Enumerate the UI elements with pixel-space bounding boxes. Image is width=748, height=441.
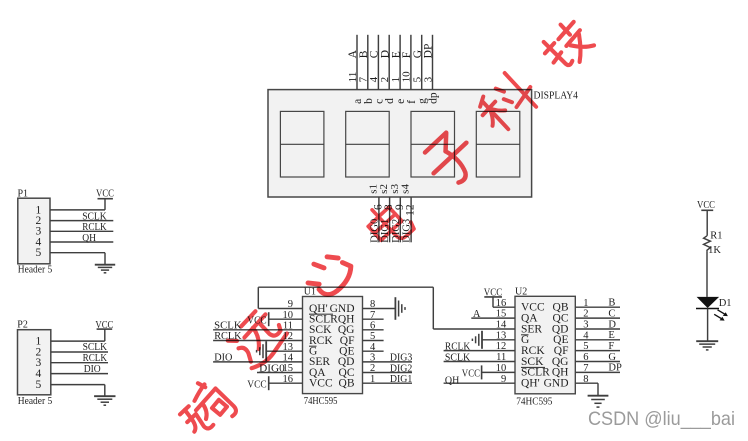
net label D (U2) bbox=[608, 319, 616, 330]
wire segment net G (display pin 5) bbox=[421, 35, 423, 90]
net label B (U2) bbox=[608, 298, 615, 309]
wire P1 pin5 to ground bbox=[50, 253, 105, 265]
power VCC (P1) bbox=[96, 188, 114, 199]
wire U1 pin12 RCLK bbox=[213, 340, 302, 342]
svg-text:VCC: VCC bbox=[697, 200, 715, 211]
pin number 5 (display top) bbox=[412, 76, 424, 82]
pin number 9 (display bottom) bbox=[394, 204, 406, 210]
svg-text:Header 5: Header 5 bbox=[18, 395, 53, 407]
wire segment net C (display pin 4) bbox=[377, 35, 379, 90]
svg-text:QB: QB bbox=[339, 378, 355, 390]
power VCC (R1 chain) bbox=[697, 200, 715, 211]
ground (P2) bbox=[94, 396, 115, 405]
svg-text:DIG2: DIG2 bbox=[390, 363, 412, 374]
connector P2 (Header 5) bbox=[17, 319, 52, 407]
wire U2 pin1 B bbox=[575, 306, 620, 308]
wire P2 pin4 DIO bbox=[51, 373, 108, 375]
net label SCLK (U2) bbox=[445, 352, 471, 363]
wire P1 pin3 RCLK bbox=[50, 230, 113, 232]
net label E (U2) bbox=[608, 330, 614, 341]
svg-text:RCLK: RCLK bbox=[83, 353, 108, 364]
wire U1 pin4 stub bbox=[363, 350, 384, 352]
svg-text:DIG1: DIG1 bbox=[390, 374, 412, 385]
svg-text:P2: P2 bbox=[17, 319, 28, 330]
op IC U2 74HC595 body bbox=[496, 286, 590, 407]
watermark char 心 bbox=[301, 247, 356, 302]
net label C bbox=[369, 50, 381, 58]
resistor R1 bbox=[704, 236, 711, 251]
wire P1 pin2 SCLK bbox=[50, 220, 113, 222]
watermark char 骑 bbox=[172, 376, 238, 441]
wire U1 pin8 GND bbox=[363, 308, 396, 310]
watermark char 电 bbox=[362, 196, 416, 250]
wire U1 pin7 stub bbox=[363, 318, 384, 320]
svg-text:RCLK: RCLK bbox=[82, 222, 107, 233]
pin name b (display) bbox=[363, 98, 375, 104]
svg-text:G: G bbox=[608, 352, 616, 363]
net label QH (P1) bbox=[82, 233, 96, 244]
svg-text:QH': QH' bbox=[521, 378, 540, 390]
wire segment net DP (display pin 3) bbox=[432, 35, 434, 90]
svg-text:A: A bbox=[473, 309, 481, 320]
svg-text:GND: GND bbox=[544, 378, 569, 390]
wire U2 pin14 bbox=[433, 328, 515, 330]
svg-text:VCC: VCC bbox=[247, 380, 267, 391]
wire U1 pin14 DIO bbox=[213, 361, 302, 363]
label D1 bbox=[719, 298, 732, 309]
pin number 10 (display top) bbox=[401, 71, 413, 83]
power VCC (P2) bbox=[95, 320, 113, 331]
svg-text:VCC: VCC bbox=[96, 188, 114, 199]
svg-text:1K: 1K bbox=[708, 245, 721, 256]
wire R1 to D1 bbox=[706, 251, 708, 297]
svg-text:RCLK: RCLK bbox=[445, 342, 471, 353]
power VCC (U2 pin16) bbox=[484, 287, 503, 298]
svg-text:U1: U1 bbox=[304, 286, 316, 297]
ground (U2 pin8) bbox=[588, 396, 609, 407]
svg-text:CSDN @liu___bai: CSDN @liu___bai bbox=[588, 408, 735, 430]
watermark char 子 bbox=[419, 127, 483, 192]
svg-text:E: E bbox=[608, 330, 614, 341]
net label RCLK (P1) bbox=[82, 222, 107, 233]
svg-text:SCLK: SCLK bbox=[82, 211, 107, 222]
net label F (U2) bbox=[608, 341, 614, 352]
wire D1 to ground bbox=[707, 309, 709, 342]
net label D bbox=[379, 50, 391, 58]
op IC U1 74HC595 body bbox=[283, 286, 377, 407]
svg-text:DIG3: DIG3 bbox=[390, 353, 412, 364]
wire P2 pin3 RCLK bbox=[51, 362, 108, 364]
net label E bbox=[390, 51, 402, 58]
wire segment net E (display pin 1) bbox=[399, 35, 401, 90]
svg-text:s4: s4 bbox=[400, 184, 412, 194]
wire segment net A (display pin 11) bbox=[356, 35, 358, 90]
svg-text:D1: D1 bbox=[719, 298, 732, 309]
wire U2 pin9 QH bbox=[444, 382, 515, 384]
svg-text:SCLK: SCLK bbox=[445, 352, 471, 363]
value 1K bbox=[708, 245, 721, 256]
svg-text:DIO: DIO bbox=[214, 353, 233, 364]
wire U1 pin3 DIG3 bbox=[363, 361, 413, 363]
svg-text:DISPLAY4: DISPLAY4 bbox=[534, 90, 579, 102]
svg-text:DP: DP bbox=[608, 363, 622, 374]
pin number 12 (display bottom) bbox=[405, 204, 417, 216]
svg-text:12: 12 bbox=[405, 204, 417, 216]
watermark char 远 bbox=[225, 306, 291, 372]
pin name d (display) bbox=[384, 98, 396, 104]
watermark char 科 bbox=[472, 67, 543, 138]
wire segment net D (display pin 2) bbox=[388, 35, 390, 90]
net label B bbox=[358, 50, 370, 58]
pin name c (display) bbox=[373, 99, 385, 104]
net label RCLK (P2) bbox=[83, 353, 108, 364]
net label DIG0 (U1) bbox=[259, 363, 285, 374]
wire U2 pin16 to VCC bbox=[493, 297, 515, 307]
wire segment net B (display pin 7) bbox=[367, 35, 369, 90]
watermark char 技 bbox=[538, 17, 597, 75]
net label A bbox=[347, 49, 359, 58]
svg-text:P1: P1 bbox=[18, 188, 29, 199]
svg-text:VCC: VCC bbox=[309, 378, 333, 390]
pin number 11 (display top) bbox=[347, 72, 359, 83]
svg-text:D: D bbox=[608, 319, 616, 330]
pin number 1 (display top) bbox=[390, 77, 402, 83]
wire P1 pin4 QH bbox=[50, 241, 113, 243]
wire digit net DIG3 (display pin 12) bbox=[410, 197, 412, 242]
svg-text:VCC: VCC bbox=[484, 287, 503, 298]
ground (P1) bbox=[95, 265, 115, 273]
wire U1 pin6 stub bbox=[363, 329, 384, 331]
wire U2 pin2 C bbox=[575, 317, 620, 319]
wire U1 pin11 SCLK bbox=[213, 329, 302, 331]
svg-text:R1: R1 bbox=[710, 230, 722, 241]
pin name s4 (display) bbox=[400, 184, 412, 194]
wire P2 pin5 to ground bbox=[51, 385, 105, 397]
wire U1 pin2 DIG2 bbox=[363, 372, 413, 374]
pin number 8 (display bottom) bbox=[383, 204, 395, 210]
wire U1 pin9 QH' loop to U2 pin14 bbox=[258, 287, 433, 329]
svg-text:5: 5 bbox=[35, 379, 41, 391]
wire U2 pin6 G bbox=[575, 361, 620, 363]
wire digit net DIG0 (display pin 6) bbox=[378, 197, 380, 242]
pin name a (display) bbox=[352, 99, 364, 104]
svg-text:U2: U2 bbox=[515, 286, 527, 297]
net label RCLK (U2) bbox=[445, 342, 471, 353]
wire U1 pin5 stub bbox=[363, 340, 384, 342]
wire U1 pin15 DIG0 bbox=[257, 372, 303, 374]
connector P1 (Header 5) bbox=[18, 188, 53, 275]
watermark CSDN @liu___bai bbox=[588, 408, 735, 430]
ground (U1 pin8, rotated) bbox=[395, 297, 405, 320]
power VCC tick (U1 pin16) bbox=[247, 376, 268, 390]
net label DIG1 bbox=[390, 374, 412, 385]
pin name s2 (display) bbox=[378, 184, 390, 194]
wire U2 pin13 to ground bbox=[482, 339, 515, 341]
svg-text:B: B bbox=[608, 298, 615, 309]
label DISPLAY4 bbox=[534, 90, 579, 102]
pin number 3 (display top) bbox=[422, 76, 434, 82]
svg-text:Header 5: Header 5 bbox=[18, 264, 53, 276]
wire U2 pin5 F bbox=[575, 350, 620, 352]
net label DP bbox=[423, 44, 435, 59]
wire U2 pin8 to ground bbox=[575, 383, 598, 396]
net label SCLK (U1) bbox=[214, 320, 242, 331]
wire U1 pin1 DIG1 bbox=[363, 382, 413, 384]
svg-text:SCLK: SCLK bbox=[214, 320, 242, 331]
pin number 4 (display top) bbox=[368, 76, 380, 82]
pin name e (display) bbox=[395, 99, 407, 104]
net label DIO (P2) bbox=[84, 364, 101, 375]
net label DIG2 bbox=[391, 219, 402, 243]
wire segment net F (display pin 10) bbox=[410, 35, 412, 90]
svg-text:C: C bbox=[608, 308, 615, 319]
power VCC tick (U1 pin10) bbox=[247, 312, 268, 326]
net label G bbox=[412, 50, 424, 58]
pin name s1 (display) bbox=[368, 184, 380, 194]
svg-text:3: 3 bbox=[422, 76, 434, 82]
svg-text:DP: DP bbox=[423, 44, 435, 59]
pin number 6 (display bottom) bbox=[373, 204, 385, 210]
svg-text:QH: QH bbox=[82, 233, 96, 244]
net label G (U2) bbox=[608, 352, 616, 363]
ground (U1 pin13, rotated) bbox=[257, 341, 267, 361]
wire P2 pin1 to VCC bbox=[51, 329, 105, 341]
ground (D1) bbox=[696, 341, 718, 350]
wire digit net DIG1 (display pin 8) bbox=[389, 197, 391, 242]
svg-text:74HC595: 74HC595 bbox=[516, 396, 552, 407]
wire U1 pin13 to ground bbox=[266, 350, 302, 352]
wire U1 pin16 bbox=[269, 382, 303, 384]
svg-text:dp: dp bbox=[428, 92, 440, 104]
net label RCLK (U1) bbox=[214, 331, 242, 342]
net label DIG2 bbox=[390, 363, 412, 374]
svg-text:SCLK: SCLK bbox=[83, 342, 108, 353]
power VCC tick (U2 pin10) bbox=[462, 365, 482, 379]
wire U1 pin10 bbox=[269, 318, 303, 320]
digit 4 box bbox=[476, 111, 520, 177]
net label A (U2) bbox=[473, 309, 481, 320]
wire P2 pin2 SCLK bbox=[51, 351, 108, 353]
wire U2 pin12 RCLK bbox=[444, 350, 515, 352]
wire U2 pin10 bbox=[482, 371, 515, 373]
label R1 bbox=[710, 230, 722, 241]
ground (U2 pin13, rotated) bbox=[472, 331, 482, 349]
net label DIG1 bbox=[380, 219, 391, 243]
wire U2 pin4 E bbox=[575, 339, 620, 341]
net label SCLK (P1) bbox=[82, 211, 107, 222]
svg-text:5: 5 bbox=[35, 247, 41, 259]
pin name s3 (display) bbox=[389, 184, 401, 194]
net label C (U2) bbox=[608, 308, 615, 319]
svg-text:DIO: DIO bbox=[84, 364, 101, 375]
svg-text:74HC595: 74HC595 bbox=[304, 396, 338, 407]
pin name g (display) bbox=[417, 98, 429, 104]
wire U2 pin3 D bbox=[575, 328, 620, 330]
net label QH (U2) bbox=[445, 376, 460, 387]
net label DIO (U1) bbox=[214, 353, 233, 364]
svg-text:QH: QH bbox=[445, 376, 460, 387]
digit 1 box bbox=[280, 111, 324, 177]
net label DIG3 bbox=[390, 353, 412, 364]
net label F bbox=[401, 52, 413, 58]
wire VCC to R1 bbox=[706, 210, 708, 236]
pin name dp (display) bbox=[428, 92, 440, 104]
LED D1 bbox=[696, 297, 728, 321]
pin name f (display) bbox=[406, 100, 418, 104]
digit 2 box bbox=[346, 111, 390, 177]
svg-text:VCC: VCC bbox=[462, 369, 480, 380]
net label DIG0 bbox=[370, 219, 381, 243]
pin number 2 (display top) bbox=[379, 77, 391, 83]
pin number 7 (display top) bbox=[358, 76, 370, 82]
wire U2 pin15 A bbox=[471, 317, 515, 319]
display DISPLAY4 body bbox=[268, 90, 532, 197]
net label DP (U2) bbox=[608, 363, 622, 374]
svg-text:F: F bbox=[608, 341, 614, 352]
svg-text:VCC: VCC bbox=[95, 320, 113, 331]
net label DIG3 bbox=[402, 219, 413, 243]
wire U2 pin7 DP bbox=[575, 371, 620, 373]
net label SCLK (P2) bbox=[83, 342, 108, 353]
wire U2 pin11 SCLK bbox=[444, 361, 515, 363]
wire P1 pin1 to VCC bbox=[50, 199, 105, 210]
digit 3 box bbox=[411, 111, 455, 177]
wire digit net DIG2 (display pin 9) bbox=[399, 197, 401, 242]
